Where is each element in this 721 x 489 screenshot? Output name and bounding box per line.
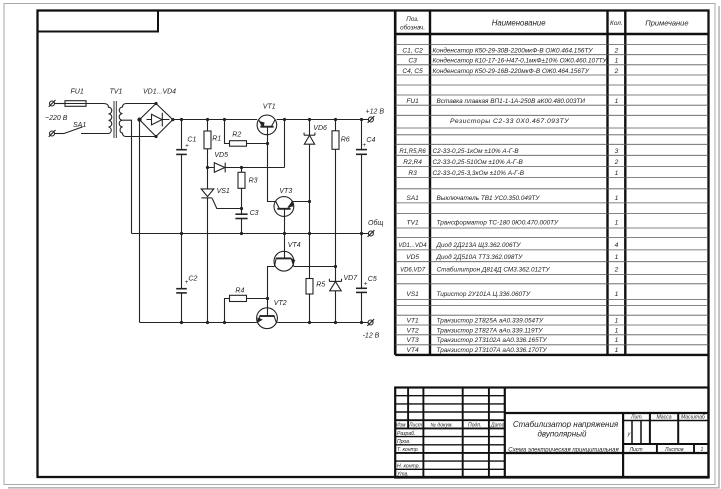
wire VT3 base to Obsh rail [284, 209, 286, 234]
svg-text:Поз.: Поз. [406, 16, 419, 23]
svg-text:VD7: VD7 [344, 275, 359, 282]
Lit/Massa/Masshtab header row [623, 420, 708, 422]
svg-text:Конденсатор К10-17-16-Н47-0,1: Конденсатор К10-17-16-Н47-0,1мкФ±10% ОЖ0… [433, 57, 608, 65]
svg-text:Наименование: Наименование [492, 19, 546, 28]
line under name box [505, 452, 709, 454]
node bridge left corner [138, 118, 141, 121]
diode VD5 [208, 167, 285, 169]
wire bridge minus output down [139, 120, 141, 323]
transistor VT1 [257, 115, 277, 135]
title block main vertical dividers [504, 388, 506, 478]
svg-text:Утв.: Утв. [397, 472, 409, 478]
svg-text:VT2: VT2 [274, 300, 287, 307]
svg-text:2: 2 [614, 159, 619, 166]
svg-text:TV1: TV1 [407, 220, 419, 227]
svg-text:Лист: Лист [629, 447, 643, 453]
svg-text:Общ: Общ [368, 219, 383, 227]
node junction at x=361.5 on Obsh rail [360, 232, 363, 235]
node junction at x=207.5 on -12V rail [206, 321, 209, 324]
svg-text:VT1: VT1 [263, 103, 276, 110]
svg-text:SA1: SA1 [73, 122, 86, 129]
resistor R4 [225, 299, 230, 323]
svg-text:VD6,VD7: VD6,VD7 [400, 268, 426, 274]
left part column lines [407, 388, 409, 429]
node junction at x=309.5 on Obsh rail [308, 232, 311, 235]
node bridge bottom corner [154, 135, 157, 138]
svg-text:R6: R6 [341, 137, 350, 144]
svg-text:С2-33-0,25-3,3кОм ±10% А-Г-В: С2-33-0,25-3,3кОм ±10% А-Г-В [433, 170, 525, 177]
svg-text:1: 1 [615, 195, 619, 202]
svg-text:С2-33-0,25-1кОм ±10% А-Г-В: С2-33-0,25-1кОм ±10% А-Г-В [433, 148, 520, 155]
svg-text:Транзистор 2Т827А аАо.339.: Транзистор 2Т827А аАо.339.119ТУ [437, 327, 544, 334]
svg-text:Конденсатор К50-29-16В-220мкФ: Конденсатор К50-29-16В-220мкФ-В ОЖ0.464.… [433, 67, 590, 75]
svg-text:+12 В: +12 В [366, 109, 385, 116]
Obsh rail wire [132, 233, 369, 235]
fuse FU1 [65, 101, 86, 107]
table position column entries [398, 47, 427, 354]
svg-text:Пров.: Пров. [397, 439, 410, 445]
input terminal X1 (top) [50, 101, 55, 106]
output terminal +12V [368, 117, 373, 122]
node junction at x=181.5 on Obsh rail [180, 232, 183, 235]
svg-text:Диод 2Д510А ТТ3.362.098ТУ: Диод 2Д510А ТТ3.362.098ТУ [436, 253, 524, 261]
svg-text:Конденсатор К50-29-30В-2200мк: Конденсатор К50-29-30В-2200мкФ-В ОЖ0.464… [433, 46, 594, 54]
node junction at x=181.5 on +12V rail [180, 118, 183, 121]
table name column entries [433, 46, 608, 354]
transistor VT3 [274, 197, 294, 217]
node junction at x=309.5 on -12V rail [308, 321, 311, 324]
title block texts [396, 415, 706, 478]
node junction at x=224.5 on +12V rail [223, 118, 226, 121]
wire Obsh rail to VT4 base [284, 234, 286, 259]
node junction at x=241.5 on R3/C3/gate [240, 207, 243, 210]
svg-text:Выключатель ТВ1 УС0.350.04: Выключатель ТВ1 УС0.350.049ТУ [437, 195, 541, 202]
wire VT4 left lead to R4 node [268, 267, 275, 299]
svg-text:Масштаб: Масштаб [681, 415, 706, 421]
page shadow bottom [8, 487, 720, 489]
svg-text:R1: R1 [212, 135, 221, 142]
wire VD5 line corner up to rail [284, 120, 286, 168]
svg-text:VT4: VT4 [288, 242, 301, 249]
junction dots [180, 118, 363, 324]
svg-text:1: 1 [615, 254, 619, 261]
svg-text:C2: C2 [188, 276, 197, 283]
svg-text:2: 2 [614, 47, 619, 54]
svg-text:№ докум.: № докум. [431, 422, 453, 428]
svg-text:2: 2 [614, 68, 619, 75]
node junction at x=207.5 on VD5 line [206, 166, 209, 169]
transformer TV1 core [113, 101, 115, 138]
svg-text:C4: C4 [366, 137, 375, 144]
svg-text:VD5: VD5 [214, 152, 228, 159]
input terminal X2 (bottom) [50, 131, 55, 136]
svg-text:С4, С5: С4, С5 [402, 68, 423, 75]
parts table header bottom [395, 33, 708, 36]
svg-text:R1,R5,R6: R1,R5,R6 [399, 149, 426, 155]
node junction at x=267.5 on R2/VT1 base [266, 142, 269, 145]
resistor R1 [207, 120, 209, 132]
capacitor C2 [181, 234, 183, 289]
resistor R3 [241, 168, 243, 173]
switch SA1 [64, 127, 83, 134]
svg-text:Масса: Масса [657, 415, 672, 421]
svg-text:VT4: VT4 [407, 347, 419, 354]
node junction at x=335.5 on VT4 emitter line [334, 265, 337, 268]
top-left reference box [38, 11, 159, 32]
svg-text:+: + [185, 143, 189, 150]
svg-text:Транзистор 2Т3102А аА0.336: Транзистор 2Т3102А аА0.336.165ТУ [437, 337, 548, 344]
resistor R6 [335, 120, 337, 131]
svg-text:3: 3 [615, 148, 619, 155]
node junction at x=309.5 on +12V rail [308, 118, 311, 121]
svg-text:у: у [627, 432, 632, 438]
svg-text:VT3: VT3 [279, 188, 292, 195]
svg-text:1: 1 [615, 317, 619, 324]
svg-text:1: 1 [615, 58, 619, 65]
svg-text:1: 1 [615, 220, 619, 227]
svg-text:Резисторы С2-33 0Х0.467.09: Резисторы С2-33 0Х0.467.093ТУ [450, 118, 569, 125]
svg-text:Кол.: Кол. [610, 20, 623, 27]
svg-text:Транзистор 2Т825А аА0.339.: Транзистор 2Т825А аА0.339.054ТУ [437, 317, 544, 324]
document name [508, 420, 631, 454]
svg-text:+: + [364, 280, 368, 287]
svg-text:1: 1 [615, 170, 619, 177]
table header texts [400, 16, 688, 31]
svg-text:VS1: VS1 [406, 291, 419, 298]
svg-text:Стабилизатор напряжения: Стабилизатор напряжения [513, 420, 619, 429]
svg-text:+: + [185, 279, 189, 286]
wire terminal to switch [55, 133, 65, 135]
svg-text:Листов: Листов [664, 447, 684, 453]
svg-text:4: 4 [615, 242, 619, 249]
svg-text:обознач.: обознач. [400, 23, 425, 31]
svg-text:Стабилитрон Д814Д СМ3.362.: Стабилитрон Д814Д СМ3.362.012ТУ [437, 266, 551, 274]
svg-text:Изм: Изм [396, 422, 406, 428]
svg-text:SA1: SA1 [406, 195, 419, 202]
svg-text:VT3: VT3 [407, 337, 419, 344]
svg-text:С3: С3 [408, 58, 417, 65]
node junction at x=335.5 on -12V rail [334, 321, 337, 324]
parts table outer verticals [394, 11, 397, 355]
output terminal -12V [368, 320, 373, 325]
node junction at x=207.5 on +12V rail [206, 118, 209, 121]
node junction at x=309.5 on VT3 emitter [308, 200, 311, 203]
node bridge right corner [171, 118, 174, 121]
svg-text:FU1: FU1 [406, 98, 419, 105]
svg-text:2: 2 [614, 267, 619, 274]
node junction at x=361.5 on -12V rail [360, 321, 363, 324]
node junction at x=241.5 on Obsh rail [240, 232, 243, 235]
svg-text:VD1...VD4: VD1...VD4 [398, 243, 427, 249]
svg-text:Подп.: Подп. [468, 422, 482, 428]
node bridge top corner [154, 102, 157, 105]
svg-text:R5: R5 [316, 282, 325, 289]
capacitor C1 [181, 120, 183, 150]
svg-text:1: 1 [615, 98, 619, 105]
svg-text:Тиристор 2У101А Ц.336.060Т: Тиристор 2У101А Ц.336.060ТУ [437, 291, 531, 298]
svg-text:R2,R4: R2,R4 [403, 159, 422, 166]
transformer TV1 primary winding [86, 104, 112, 134]
List/Listov row dividers [656, 444, 658, 453]
svg-text:R2: R2 [232, 131, 241, 138]
svg-text:1: 1 [701, 447, 704, 453]
table qty column entries [614, 47, 619, 354]
wire switch to transformer [81, 133, 109, 135]
resistor R2 with corner from rail [225, 120, 230, 144]
capacitor C3 [235, 213, 247, 215]
svg-text:TV1: TV1 [110, 89, 123, 96]
svg-text:VD1...VD4: VD1...VD4 [143, 89, 176, 96]
svg-text:Примечание: Примечание [645, 19, 688, 28]
svg-text:VS1: VS1 [217, 188, 230, 195]
transformer TV1 secondary winding [119, 104, 156, 137]
svg-text:VT1: VT1 [407, 317, 419, 324]
svg-text:R3: R3 [408, 170, 417, 177]
+12V rail wire [173, 119, 257, 121]
wire secondary center tap [123, 120, 132, 233]
title block outer border [395, 388, 708, 478]
svg-text:Лит.: Лит. [630, 415, 643, 421]
page shadow right [718, 6, 720, 488]
capacitor C5 [361, 234, 363, 289]
svg-text:С2-33-0,25-510Ом ±10% А-Г-В: С2-33-0,25-510Ом ±10% А-Г-В [433, 159, 524, 166]
left part row lines [395, 396, 505, 470]
node junction at x=181.5 on -12V rail [180, 321, 183, 324]
parts table row lines [395, 44, 708, 344]
svg-text:1: 1 [615, 327, 619, 334]
svg-text:Разраб.: Разраб. [397, 431, 415, 437]
svg-text:1: 1 [615, 337, 619, 344]
svg-text:Диод 2Д213А Щ3.362.006ТУ: Диод 2Д213А Щ3.362.006ТУ [436, 241, 522, 249]
resistor R5 [309, 234, 311, 279]
svg-text:~220 В: ~220 В [45, 115, 68, 122]
bridge rectifier VD1...VD4 [140, 104, 173, 137]
svg-text:Т. контр.: Т. контр. [397, 447, 419, 453]
node junction at x=284.5 on +12V rail [283, 118, 286, 121]
wire terminal to fuse [55, 103, 66, 105]
node junction at x=335.5 on +12V rail [334, 118, 337, 121]
svg-text:VT2: VT2 [407, 327, 419, 334]
top strip divider above name box [505, 412, 709, 414]
svg-text:С1, С2: С1, С2 [402, 47, 423, 54]
svg-text:Вставка плавкая ВП1-1-1А-250: Вставка плавкая ВП1-1-1А-250В аК00.480.0… [437, 98, 586, 105]
svg-text:VD5: VD5 [406, 254, 419, 261]
zener diode VD6 [309, 120, 311, 136]
node junction at x=241.5 on VD5 line [240, 166, 243, 169]
svg-text:Схема электрическая принципиал: Схема электрическая принципиальная [508, 448, 619, 454]
svg-text:FU1: FU1 [71, 89, 84, 96]
transistor VT2 [257, 308, 278, 329]
node junction at x=284.5 on Obsh rail [283, 232, 286, 235]
Lit subcells [631, 421, 633, 445]
schematic labels [45, 89, 384, 340]
svg-text:1: 1 [615, 291, 619, 298]
capacitor C4 [361, 120, 363, 150]
svg-text:C5: C5 [368, 276, 377, 283]
svg-text:Дата: Дата [490, 422, 505, 428]
node junction at x=224.5 on -12V rail [223, 321, 226, 324]
node junction at x=361.5 on +12V rail [360, 118, 363, 121]
svg-text:R4: R4 [235, 288, 244, 295]
thyristor VS1 [207, 168, 209, 189]
zener diode VD7 [329, 280, 341, 282]
svg-text:Лист: Лист [408, 422, 422, 428]
svg-text:Трансформатор ТС-180 0Ю0.4: Трансформатор ТС-180 0Ю0.470.000ТУ [437, 220, 560, 227]
wire VT4 emitter to VD7 node [294, 266, 336, 268]
node junction at x=267.5 on R4/VT2 base [266, 297, 269, 300]
svg-text:1: 1 [615, 347, 619, 354]
wire VT2 base up to R4 node [267, 299, 269, 317]
svg-text:+: + [362, 142, 366, 149]
svg-text:Транзистор 2Т3107А аА0.336: Транзистор 2Т3107А аА0.336.170ТУ [437, 347, 548, 354]
svg-text:двуполярный: двуполярный [538, 429, 588, 438]
parts table bottom border [395, 354, 708, 356]
wire VT3 emitter to VD6 node [292, 201, 309, 203]
transistor VT4 [274, 251, 294, 271]
wire VT1 base down to VT3 [268, 127, 276, 202]
svg-text:-12 В: -12 В [363, 332, 380, 339]
-12V rail wire [140, 322, 257, 324]
svg-text:R3: R3 [249, 178, 258, 185]
svg-text:Н. контр.: Н. контр. [397, 464, 420, 470]
output terminal Obsh [368, 231, 373, 236]
svg-text:VD6: VD6 [313, 125, 327, 132]
svg-text:C3: C3 [250, 210, 259, 217]
